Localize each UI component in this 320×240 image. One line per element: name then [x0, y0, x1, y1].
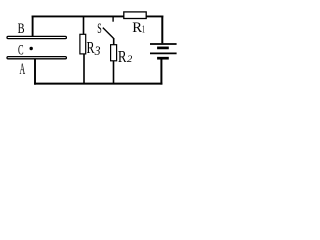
resistor R1 box — [124, 12, 146, 19]
charged particle dot at C — [30, 47, 33, 50]
wire R3 bottom — [83, 54, 85, 84]
resistor R2 box — [111, 45, 117, 61]
wire left vertical to plate B — [32, 16, 34, 37]
wire right lower — [160, 59, 162, 84]
capacitor plate A — [7, 57, 66, 59]
svg-text:B: B — [18, 20, 25, 36]
wire right upper — [161, 16, 163, 44]
svg-text:3: 3 — [94, 43, 101, 58]
battery cell 2 short thick plate — [157, 57, 169, 60]
battery cell 1 short thick plate — [157, 47, 169, 50]
wire bottom — [34, 83, 162, 85]
svg-text:C: C — [18, 41, 24, 58]
switch S contact stub — [112, 16, 114, 21]
svg-text:1: 1 — [142, 23, 145, 35]
wire R3 top — [83, 16, 85, 34]
wire R2 top — [113, 38, 115, 45]
resistor R3 box — [80, 34, 86, 54]
battery cell 2 long plate — [150, 52, 177, 54]
battery cell 1 long plate — [150, 43, 177, 45]
svg-text:S: S — [97, 21, 101, 37]
capacitor plate B — [7, 36, 66, 38]
svg-text:R: R — [118, 47, 127, 66]
wire from plate A down — [34, 59, 36, 85]
svg-text:A: A — [20, 60, 26, 78]
wire R2 bottom — [113, 61, 115, 84]
svg-text:R: R — [87, 39, 95, 58]
svg-text:R: R — [132, 20, 142, 36]
wire top — [32, 15, 164, 17]
switch S blade — [103, 28, 114, 39]
svg-text:2: 2 — [127, 54, 132, 64]
